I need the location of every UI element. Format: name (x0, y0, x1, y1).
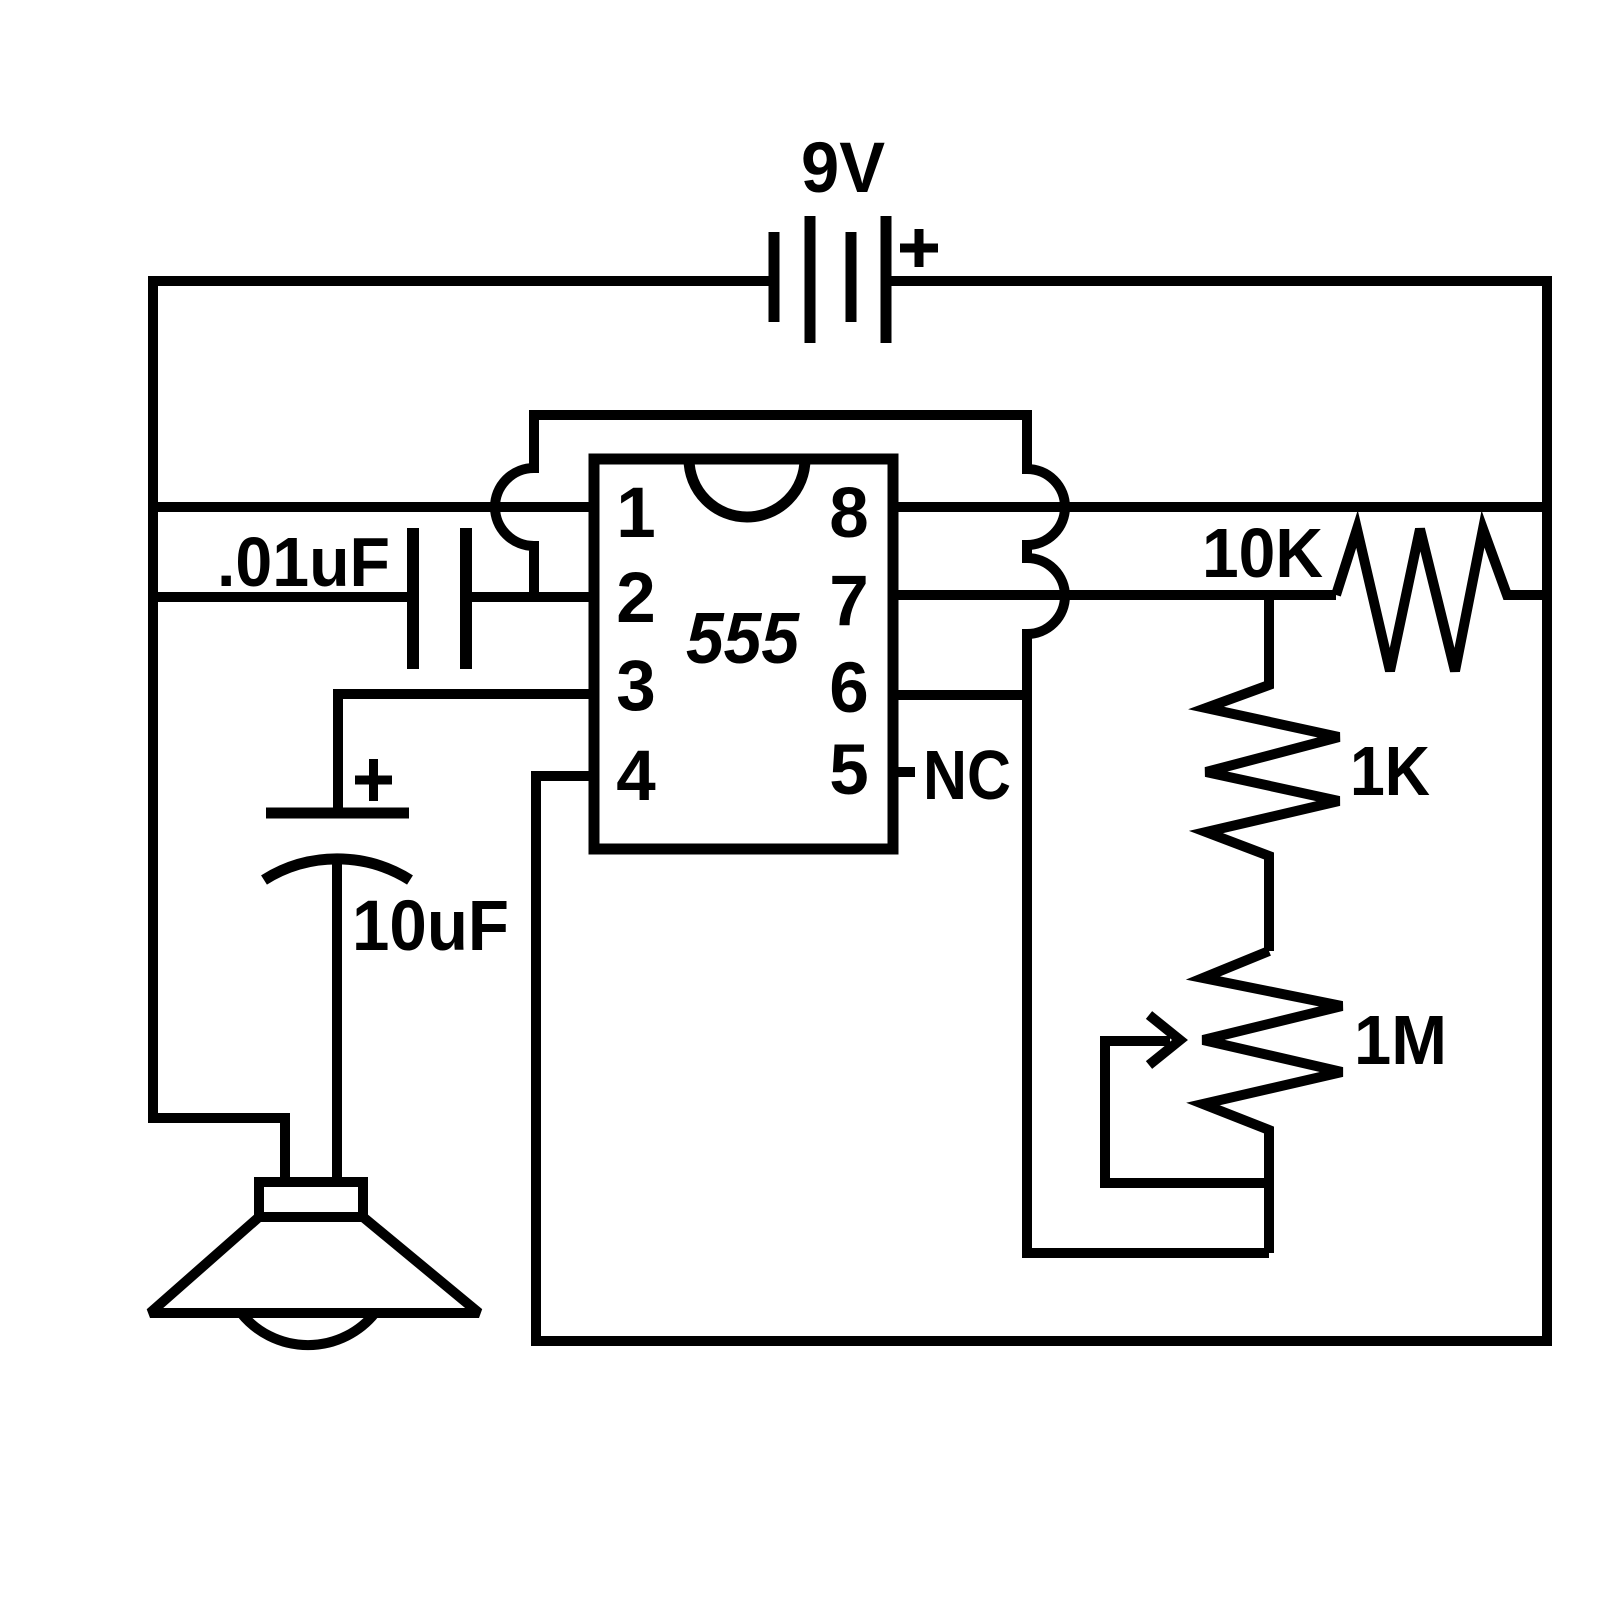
resistor R1 10K (1336, 529, 1547, 671)
svg-text:555: 555 (686, 599, 800, 679)
svg-text:2: 2 (616, 559, 656, 638)
plus sign C2 polarity (355, 759, 392, 801)
wire pin 3 to C2 (338, 694, 594, 813)
svg-text:1: 1 (616, 474, 656, 553)
svg-text:8: 8 (829, 474, 869, 553)
speaker SP1 (259, 1182, 363, 1217)
svg-text:10uF: 10uF (352, 887, 509, 966)
wire pin 5 NC dash (893, 767, 915, 777)
wire pin 8 to right rail (893, 502, 1547, 512)
IC U1 pin-1 notch (689, 459, 805, 517)
svg-text:7: 7 (829, 562, 869, 641)
wire pin 2 to C1 and left rail (153, 592, 594, 602)
svg-text:1K: 1K (1350, 732, 1430, 810)
resistor R2 1K (1206, 595, 1339, 951)
wire pin 1 to left rail (153, 502, 594, 512)
wire V- loop: battery - to left rail to speaker (153, 281, 769, 1187)
capacitor C2 10uF (266, 808, 409, 819)
svg-text:.01uF: .01uF (217, 523, 390, 601)
IC U1 555 body (594, 459, 893, 849)
potentiometer wiper arrow (1105, 1041, 1269, 1183)
svg-text:10K: 10K (1202, 514, 1323, 592)
plus sign battery polarity (900, 229, 938, 267)
battery B1 9V (774, 216, 886, 343)
wire pin 6 (893, 690, 1027, 700)
svg-text:3: 3 (616, 647, 656, 726)
svg-text:1M: 1M (1354, 1001, 1447, 1079)
wire C2 to speaker (332, 862, 342, 1187)
svg-text:5: 5 (829, 731, 869, 810)
svg-text:4: 4 (616, 737, 656, 816)
wire V+ loop: pin4 to bottom rail to right rail to battery + (536, 281, 1547, 1341)
svg-text:6: 6 (829, 649, 869, 728)
potentiometer R3 1M (1203, 951, 1342, 1253)
svg-text:NC: NC (923, 736, 1011, 814)
capacitor C1 .01uF (413, 528, 466, 669)
svg-text:9V: 9V (801, 129, 885, 208)
wire pin2-pin6 jumper with crossover hops (495, 415, 1269, 1253)
wire pin 7 (893, 590, 1336, 600)
